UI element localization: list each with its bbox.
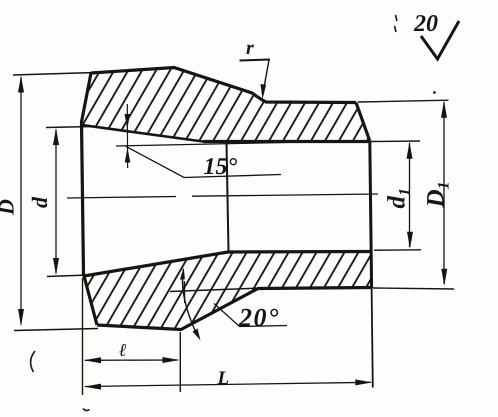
label D1	[427, 183, 448, 208]
taper 15 top	[82, 125, 203, 142]
d1 bottom extension	[374, 249, 421, 251]
20deg horizontal reference	[170, 288, 256, 291]
stray dot	[433, 91, 436, 94]
top wall section (hatched)	[82, 68, 370, 142]
stray bracket bottom left	[31, 351, 35, 372]
roughness mark 20 with check	[414, 15, 438, 31]
bottom outer contour	[97, 288, 371, 330]
label l	[119, 344, 126, 356]
dim line D1	[443, 102, 445, 284]
d bottom extension	[47, 275, 88, 277]
dim line L	[85, 382, 371, 386]
stray dash bottom	[83, 409, 90, 411]
dim line d1	[409, 143, 411, 247]
label D	[0, 200, 14, 216]
bore top line	[203, 140, 370, 143]
axis center line	[67, 194, 378, 198]
label 15deg	[204, 158, 237, 174]
r leader with arrow	[263, 60, 269, 93]
dim line l	[85, 359, 178, 361]
bottom wall section (hatched)	[84, 252, 371, 330]
20deg vertical tick	[183, 281, 185, 303]
D bottom extension	[14, 329, 98, 331]
left face	[82, 73, 98, 325]
label d	[32, 197, 47, 208]
15deg vertical witness with arrows	[126, 104, 128, 168]
dim line d	[55, 130, 57, 274]
r underline	[240, 60, 271, 61]
15deg horizontal reference	[116, 143, 285, 147]
right face / L extension	[370, 141, 372, 288]
D1 bottom extension	[373, 288, 454, 289]
chamfer top right	[356, 103, 370, 142]
D1 top extension	[358, 100, 449, 102]
bottom wall top edge	[84, 252, 371, 277]
bore transition vertical	[227, 142, 229, 252]
d top extension	[46, 127, 93, 128]
dim line D	[20, 77, 22, 325]
outer contour top	[91, 68, 356, 103]
20deg leader and shelf	[214, 304, 287, 327]
20deg arc with arrows	[182, 269, 197, 335]
d1 top extension	[371, 140, 420, 143]
r label	[246, 45, 254, 54]
label 20deg	[239, 309, 279, 327]
D top extension	[13, 73, 95, 76]
stray quote marks	[395, 15, 398, 32]
l extension right	[179, 332, 181, 392]
l extension left	[82, 278, 84, 395]
label L	[217, 372, 228, 384]
right face extension (L dimension witness)	[372, 288, 373, 388]
label d1	[387, 190, 409, 209]
15deg leader and shelf	[126, 147, 281, 178]
